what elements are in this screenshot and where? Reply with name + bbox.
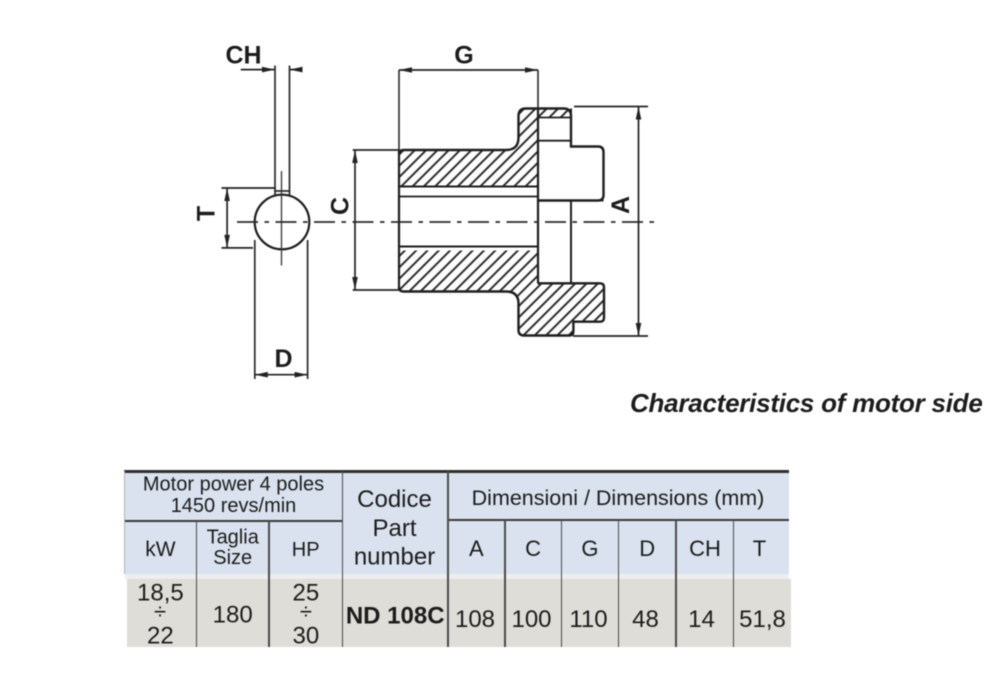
svg-text:48: 48 (632, 606, 659, 633)
svg-text:G: G (581, 536, 598, 561)
dimension D extension lines (254, 240, 256, 379)
svg-text:number: number (354, 544, 435, 571)
svg-text:÷: ÷ (300, 599, 312, 624)
hub left edge (398, 150, 400, 288)
svg-text:CH: CH (689, 536, 721, 561)
column line A/C (504, 520, 506, 647)
column line kW/Taglia (196, 521, 198, 647)
svg-text:C: C (525, 536, 541, 561)
hatched lower hub+flange+tooth area (399, 251, 604, 336)
dimension D line with arrows (255, 372, 308, 378)
dimension C line with arrows (352, 150, 399, 290)
dimension A line with arrows (573, 107, 648, 337)
svg-text:180: 180 (213, 602, 253, 629)
svg-text:Taglia: Taglia (207, 527, 260, 549)
dimension T line with arrows (222, 188, 277, 248)
svg-text:51,8: 51,8 (739, 606, 786, 633)
table left faint edge (124, 471, 125, 574)
svg-text:A: A (469, 536, 484, 561)
bore bottom line (399, 246, 538, 248)
svg-text:100: 100 (511, 606, 551, 633)
dimension G line with arrows (399, 67, 538, 73)
vertical centerline of bore (281, 171, 283, 266)
column line D/CH (675, 520, 677, 647)
dimension CH line with inward arrows (241, 67, 303, 73)
svg-text:HP: HP (292, 539, 320, 561)
svg-text:ND 108C: ND 108C (346, 603, 445, 630)
tooth bottom line upper half (538, 200, 604, 202)
svg-text:Dimensioni / Dimensions (mm): Dimensioni / Dimensions (mm) (472, 486, 765, 510)
bore top line (399, 196, 538, 198)
outline upper half (399, 109, 604, 201)
G extension line left (398, 70, 400, 150)
tooth gap notch top line (538, 117, 571, 119)
svg-text:kW: kW (145, 538, 176, 561)
svg-text:D: D (639, 536, 655, 561)
table header background (blue) (125, 471, 789, 574)
svg-text:30: 30 (293, 623, 320, 650)
keyway side wall right (289, 66, 291, 197)
bore keyway line (399, 186, 538, 188)
keyway side wall left (274, 66, 276, 197)
caption: Characteristics of motor side (630, 388, 983, 419)
table light band between header and data (125, 574, 789, 578)
svg-text:Motor power 4 poles: Motor power 4 poles (143, 474, 324, 496)
svg-text:÷: ÷ (154, 599, 166, 624)
svg-text:22: 22 (147, 623, 174, 650)
column line Codice/A (447, 471, 449, 647)
svg-text:Codice: Codice (357, 486, 432, 513)
svg-text:110: 110 (569, 606, 607, 633)
tooth gap notch bottom line (538, 140, 571, 142)
column line CH/T (733, 520, 735, 647)
svg-text:Size: Size (213, 547, 252, 569)
column line C/G (561, 520, 563, 647)
svg-text:1450 revs/min: 1450 revs/min (171, 495, 297, 517)
table top border (124, 470, 789, 472)
column line G/D (618, 520, 620, 647)
column line Taglia/HP (268, 521, 270, 647)
horizontal dash-dot centerline (237, 221, 658, 223)
hatched upper hub+flange area (399, 109, 571, 187)
G extension line right (537, 70, 539, 109)
header row1 separator right (448, 519, 789, 521)
tooth inner face lower line (570, 201, 572, 283)
svg-text:14: 14 (688, 606, 715, 633)
table data row background (gray) (127, 579, 791, 647)
svg-text:108: 108 (455, 606, 495, 633)
svg-text:T: T (753, 536, 766, 561)
tooth inner face upper line (570, 109, 572, 147)
column line HP/Codice (342, 471, 344, 647)
svg-text:Part: Part (372, 515, 416, 542)
bore circle D (255, 195, 310, 250)
flange face line (537, 109, 539, 284)
keyway slot bottom flat (274, 190, 290, 192)
header row1 separator left (125, 520, 343, 522)
outline lower half (399, 283, 604, 335)
